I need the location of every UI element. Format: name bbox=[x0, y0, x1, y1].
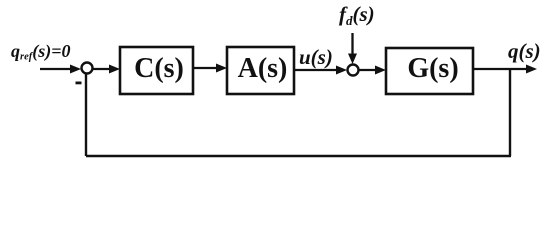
summing junction S1 bbox=[82, 63, 93, 74]
wire: feedback bottom horizontal bbox=[86, 155, 511, 157]
block C(s) bbox=[120, 47, 193, 94]
summing junction S2 bbox=[348, 65, 359, 76]
minus sign at S1 bbox=[76, 82, 82, 85]
svg-text:u(s): u(s) bbox=[299, 45, 333, 69]
wire: S2 to G(s) with arrowhead bbox=[359, 66, 386, 75]
svg-text:C(s): C(s) bbox=[134, 53, 184, 84]
wire: C(s) to A(s) with arrowhead bbox=[193, 64, 227, 73]
wire: output line from G(s) with arrowhead bbox=[473, 65, 537, 74]
wire: S1 to C(s) with arrowhead bbox=[93, 65, 120, 74]
wire: f_d(s) vertical arrow into S2 bbox=[348, 33, 357, 64]
svg-text:A(s): A(s) bbox=[238, 53, 288, 84]
wire: feedback tap down from output node bbox=[509, 69, 511, 156]
wire: feedback vertical up into S1 bbox=[85, 74, 87, 156]
svg-text:G(s): G(s) bbox=[407, 53, 458, 84]
svg-text:qref(s)=0: qref(s)=0 bbox=[11, 41, 71, 63]
block G(s) bbox=[386, 48, 473, 94]
svg-text:fd(s): fd(s) bbox=[339, 2, 375, 28]
svg-text:q(s): q(s) bbox=[508, 39, 541, 63]
block A(s) bbox=[227, 47, 294, 94]
wire: input arrow into summing junction S1 bbox=[40, 65, 81, 74]
wire: A(s) to summing junction S2 with arrowhead bbox=[294, 66, 347, 75]
